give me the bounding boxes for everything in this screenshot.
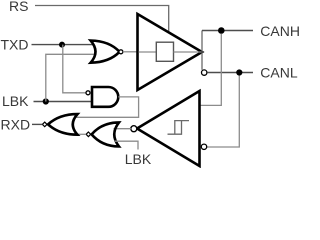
svg-text:LBK: LBK <box>125 151 152 167</box>
wire driver input to slope box <box>139 51 157 53</box>
wire TXD to NOR input <box>32 44 95 46</box>
bubble G2 inverted input <box>86 91 90 95</box>
svg-text:CANH: CANH <box>260 23 300 39</box>
wire CANL <box>207 72 253 74</box>
bubble G4 output <box>42 122 47 127</box>
node LBK junction <box>43 98 49 104</box>
wire RXD <box>32 123 42 125</box>
bubble G1 output <box>119 50 123 54</box>
svg-text:RS: RS <box>9 0 28 14</box>
wire LBK to NAND input <box>34 101 93 103</box>
wire G2 output to G4 top input <box>75 97 139 117</box>
OR gate G4 (RXD output, points left) <box>48 114 78 135</box>
bubble CANL inversion <box>202 70 207 75</box>
wire G1 output to driver input <box>123 51 138 53</box>
wire G3 output to G4 lower input <box>78 133 87 135</box>
wire RS to driver slope input <box>35 6 169 33</box>
svg-text:TXD: TXD <box>1 36 29 52</box>
node CANH junction <box>218 27 225 34</box>
bubble receiver inverting input <box>201 144 206 149</box>
svg-text:CANL: CANL <box>260 64 298 80</box>
svg-text:LBK: LBK <box>2 93 29 109</box>
svg-text:RXD: RXD <box>1 117 31 133</box>
wire CANH <box>202 30 253 32</box>
wire driver output stem <box>201 31 203 70</box>
bubble receiver output <box>131 126 137 132</box>
slope control box <box>156 42 173 61</box>
wire LBK bottom to G3 lower input <box>114 141 138 149</box>
node TXD junction <box>59 42 65 48</box>
hysteresis symbol <box>168 121 190 135</box>
wire CANL to receiver inverting input <box>207 76 240 148</box>
wire LBK junction to NOR lower input <box>46 54 95 101</box>
NOR gate G1 (TXD/LBK) <box>91 41 120 63</box>
node CANL junction <box>236 69 242 75</box>
NAND gate G2 (LBK/TXD) <box>92 87 118 107</box>
OR gate G3 (loopback, points left) <box>92 122 119 146</box>
bubble G3 output <box>86 132 91 137</box>
wire receiver output to G3 input <box>114 128 131 130</box>
driver amplifier U1 <box>138 14 203 90</box>
wire slope box to apex <box>174 51 202 53</box>
receiver comparator U2 <box>137 91 200 166</box>
wire TXD junction to NAND inverted input <box>63 45 86 93</box>
wire CANH to receiver noninverting input <box>200 34 221 106</box>
